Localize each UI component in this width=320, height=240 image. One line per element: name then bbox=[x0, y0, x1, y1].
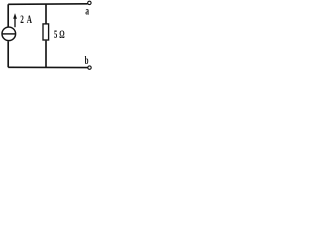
svg-text:Ω: Ω bbox=[59, 27, 65, 41]
current source I1 bar bbox=[2, 33, 15, 35]
svg-text:b: b bbox=[85, 53, 89, 67]
terminal a bbox=[88, 1, 91, 4]
wire left vertical lower bbox=[7, 41, 9, 67]
svg-text:5: 5 bbox=[54, 27, 57, 41]
svg-text:a: a bbox=[85, 6, 89, 18]
wire top horizontal bbox=[8, 3, 87, 6]
current source I1 circle bbox=[2, 27, 16, 41]
wire left vertical upper bbox=[7, 4, 9, 26]
terminal b bbox=[88, 66, 91, 69]
wire bottom horizontal bbox=[8, 66, 88, 68]
resistor R 5ohm body bbox=[43, 24, 49, 40]
current arrow for 2 A bbox=[13, 13, 17, 27]
wire middle vertical upper bbox=[45, 4, 47, 24]
svg-text:2: 2 bbox=[20, 12, 24, 26]
svg-text:A: A bbox=[27, 12, 32, 26]
wire middle vertical lower bbox=[45, 41, 47, 68]
